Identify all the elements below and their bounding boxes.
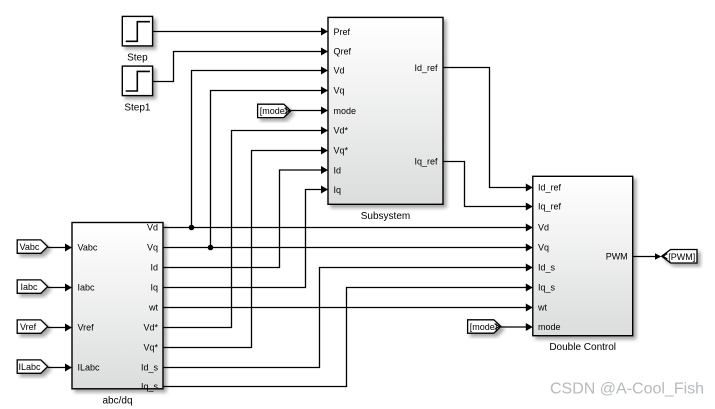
junction node Vq [208,245,214,251]
from tag ILabc [17,360,48,373]
svg-text:ILabc: ILabc [19,362,42,372]
svg-text:Vq*: Vq* [334,146,349,156]
wire From mode to Subsystem mode [291,110,327,112]
svg-text:Id_s: Id_s [538,263,556,273]
svg-text:Iabc: Iabc [78,283,96,293]
svg-text:Double Control: Double Control [549,342,616,353]
wire Vref tag to abc/dq Vref [48,327,71,329]
wire Vd branch to Subsystem Vd [192,71,327,228]
svg-text:Vq*: Vq* [143,343,158,353]
wire Vabc tag to abc/dq Vabc [48,247,71,249]
svg-text:Pref: Pref [334,27,351,37]
svg-text:ILabc: ILabc [78,362,101,372]
wire abc/dq Vd to Double Control Vd [163,227,531,229]
svg-text:Step: Step [127,53,148,64]
step source Step [122,16,152,46]
wire Step to Subsystem Pref [153,31,327,33]
from tag Vabc [17,240,48,253]
svg-text:Vq: Vq [538,243,549,253]
svg-text:Iq_s: Iq_s [538,283,556,293]
wire abc/dq Vd* to Subsystem Vd* [163,131,327,328]
svg-text:wt: wt [148,303,158,313]
subsystem block abc/dq [72,223,163,389]
wire Double Control PWM to Goto PWM [633,256,660,258]
svg-text:Vd: Vd [538,223,549,233]
svg-text:Iabc: Iabc [21,282,39,292]
svg-text:Id_ref: Id_ref [538,183,562,193]
wire abc/dq Id to Subsystem Id [163,170,327,268]
svg-text:Vd*: Vd* [334,126,349,136]
subsystem block Double Control [533,176,633,335]
step source Step1 [122,66,152,96]
goto tag PWM [662,250,697,264]
svg-text:Iq: Iq [334,185,342,195]
svg-text:[PWM]: [PWM] [668,252,695,262]
svg-text:Vd*: Vd* [143,323,158,333]
svg-text:Vabc: Vabc [78,243,98,253]
svg-text:[mode]: [mode] [470,322,498,332]
svg-text:Step1: Step1 [124,102,151,113]
svg-text:abc/dq: abc/dq [102,396,132,407]
svg-text:Qref: Qref [334,47,352,57]
from tag Vref [17,320,48,333]
svg-text:Vd: Vd [334,66,345,76]
svg-text:[mode]: [mode] [260,106,288,116]
svg-text:Vabc: Vabc [20,242,40,252]
from tag mode (lower) [468,320,501,333]
svg-text:Id_ref: Id_ref [414,63,438,73]
wire abc/dq Id_s to Double Control Id_s [163,268,531,368]
wire Iabc tag to abc/dq Iabc [48,287,71,289]
wire abc/dq Vq* to Subsystem Vq* [163,151,327,348]
svg-text:Vq: Vq [147,243,158,253]
svg-text:Iq_s: Iq_s [141,382,159,392]
svg-text:mode: mode [334,106,357,116]
wire abc/dq wt to Double Control wt [163,307,531,309]
wire abc/dq Vq to Double Control Vq [163,247,531,249]
svg-text:Iq_ref: Iq_ref [538,201,562,211]
svg-text:Id: Id [150,263,158,273]
wire abc/dq Iq_s to Double Control Iq_s [163,288,531,387]
svg-text:wt: wt [537,303,547,313]
svg-text:PWM: PWM [606,252,628,262]
svg-text:Subsystem: Subsystem [361,211,410,222]
wire ILabc tag to abc/dq ILabc [48,367,71,369]
wire abc/dq Iq to Subsystem Iq [163,190,327,288]
wire Step1 to Subsystem Qref [153,52,327,82]
subsystem block Subsystem [328,17,443,204]
svg-text:Vref: Vref [78,322,95,332]
svg-text:CSDN @A-Cool_Fish: CSDN @A-Cool_Fish [550,381,704,398]
svg-text:mode: mode [538,322,561,332]
svg-text:Vd: Vd [147,223,158,233]
svg-text:Iq: Iq [150,283,158,293]
wire Subsystem Id_ref to Double Control Id_ref [443,68,531,188]
svg-text:Id: Id [334,165,342,175]
from tag mode (upper) [258,104,291,117]
from tag Iabc [17,280,48,293]
wire Subsystem Iq_ref to Double Control Iq_ref [443,162,531,207]
svg-text:Iq_ref: Iq_ref [414,157,438,167]
svg-text:Vq: Vq [334,86,345,96]
wire From mode1 to Double Control mode [501,326,531,328]
svg-text:Id_s: Id_s [141,362,159,372]
svg-text:Vref: Vref [20,322,37,332]
junction node Vd [189,225,195,231]
wire Vq branch to Subsystem Vq [211,91,327,248]
